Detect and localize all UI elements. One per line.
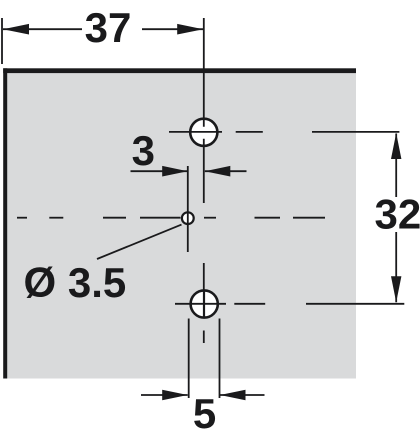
- dimension 32: dimension line: [395, 134, 397, 303]
- bottom hole H2 (Ø5): [191, 290, 218, 317]
- svg-text:3: 3: [132, 127, 155, 174]
- vertical centerline (x=203.8) incl. 37 extension: [203, 18, 205, 343]
- plate body (gray panel): [7, 73, 356, 379]
- dimension 3: dimension line: [131, 170, 247, 172]
- leader line for Ø3.5: [97, 225, 182, 259]
- dimension 32: arrowhead pointing down: [391, 276, 401, 302]
- dimension 3: arrowhead pointing left: [205, 166, 231, 177]
- dimension 5: left extension line: [188, 319, 190, 399]
- dimension 5: arrowhead pointing right: [162, 390, 188, 401]
- dimension 5: dimension line: [141, 394, 265, 396]
- extension line of dim 3 through middle hole: [187, 166, 189, 252]
- svg-text:32: 32: [375, 191, 420, 238]
- top hole H1 (Ø5): [190, 119, 217, 146]
- dimension 37: right arrowhead: [177, 24, 203, 35]
- horizontal centerline (dash-dot through middle hole, y=217.7): [17, 217, 325, 219]
- dimension 37: left arrowhead: [3, 24, 29, 35]
- dimension 5: arrowhead pointing left: [220, 390, 246, 401]
- svg-text:37: 37: [85, 4, 132, 51]
- plate left edge: [3, 68, 7, 378]
- dimension 32: arrowhead pointing up: [391, 133, 401, 159]
- svg-text:Ø 3.5: Ø 3.5: [24, 259, 127, 306]
- dimension 37: dimension line: [3, 28, 203, 30]
- plate top edge: [3, 68, 356, 73]
- dimension 3: arrowhead pointing right: [162, 166, 188, 177]
- middle hole H3 (Ø3.5): [182, 212, 194, 224]
- dimension 37: left extension line: [1, 18, 3, 64]
- bottom hole H2 crosshair horizontal: [175, 303, 404, 305]
- bottom hole H2 crosshair vertical: [203, 290, 205, 319]
- top hole H1 crosshair horizontal: [169, 131, 399, 133]
- svg-text:5: 5: [193, 390, 216, 432]
- dimension 5: right extension line: [219, 319, 221, 399]
